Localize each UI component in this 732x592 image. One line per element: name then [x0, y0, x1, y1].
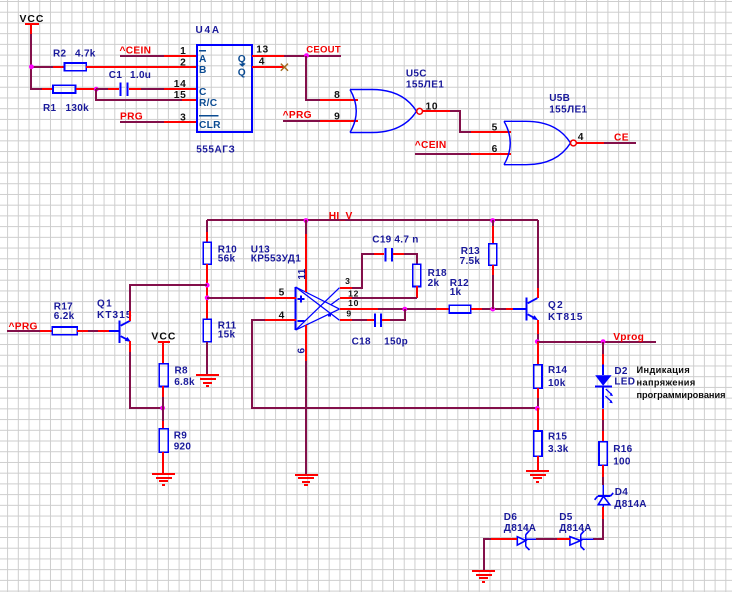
- NOR gate U5C 155ЛЕ1: [350, 90, 417, 133]
- svg-text:4.7k: 4.7k: [75, 49, 96, 60]
- svg-text:6.8k: 6.8k: [174, 377, 195, 388]
- resistor R14: [534, 342, 568, 408]
- svg-text:^CEIN: ^CEIN: [415, 140, 447, 151]
- wire pin 10 to R12: [378, 308, 436, 310]
- wire VCC vertical to junction: [31, 34, 42, 89]
- pin 8 stub: [320, 99, 358, 101]
- node junction R14/R15/feedback: [535, 406, 540, 411]
- svg-text:PRG: PRG: [120, 112, 143, 123]
- wire Q2 emitter down: [537, 320, 539, 334]
- svg-text:100: 100: [613, 457, 631, 468]
- pin 10 stub: [340, 308, 378, 310]
- node junction HI_V/pin11: [304, 218, 309, 223]
- svg-text:1: 1: [180, 46, 186, 57]
- svg-text:12: 12: [348, 288, 359, 298]
- svg-text:R1: R1: [43, 103, 57, 114]
- wire R10 junction to pin 5: [207, 297, 265, 299]
- wire pin3 up to C19: [352, 254, 374, 288]
- resistor R10: [203, 232, 237, 319]
- wire ^PRG to pin 9: [283, 120, 320, 122]
- svg-text:LED: LED: [614, 377, 635, 388]
- svg-text:Q: Q: [238, 54, 246, 65]
- svg-text:U5C: U5C: [406, 69, 427, 80]
- resistor R15: [534, 408, 569, 470]
- wire C19 to R18 top: [404, 254, 417, 264]
- resistor R9: [159, 408, 191, 474]
- svg-text:4: 4: [259, 57, 265, 68]
- zener diode D4 Д814А: [595, 477, 647, 519]
- capacitor C19: [372, 234, 418, 261]
- transistor Q2 KT815: [506, 298, 584, 324]
- wire between D5 and D6: [536, 538, 557, 540]
- svg-text:10: 10: [348, 298, 359, 308]
- capacitor C1: [108, 70, 151, 96]
- resistor R12: [436, 278, 482, 313]
- svg-text:7.5k: 7.5k: [460, 256, 481, 267]
- no-connect X on pin 4: [281, 64, 288, 71]
- pin 4 stub (U5B out): [576, 142, 604, 144]
- svg-text:HI_V: HI_V: [329, 211, 353, 222]
- svg-text:U5B: U5B: [549, 93, 570, 104]
- zener diode D5 Д814А: [557, 512, 593, 550]
- pin 5 stub: [265, 297, 296, 299]
- wire U5C out to U5B pin 5: [450, 111, 471, 132]
- svg-text:2k: 2k: [428, 278, 440, 289]
- wire ^CEIN to pin 1: [120, 55, 164, 57]
- node junction emitter/Vprog: [535, 339, 540, 344]
- output bubble U5B: [571, 140, 577, 146]
- wire ^PRG to R17: [7, 330, 40, 332]
- svg-text:Д814А: Д814А: [614, 499, 647, 510]
- svg-text:C1: C1: [109, 70, 123, 81]
- pin 11 wire from HI_V: [305, 220, 307, 234]
- svg-text:130k: 130k: [66, 103, 90, 114]
- svg-text:R14: R14: [548, 365, 567, 376]
- svg-text:Д814А: Д814А: [504, 523, 537, 534]
- ground below R15: [526, 471, 549, 482]
- output bubble U5C: [417, 108, 423, 114]
- node junction Vprog/D2: [601, 339, 606, 344]
- svg-text:3: 3: [180, 112, 186, 123]
- transistor Q1 KT315: [97, 298, 133, 343]
- svg-text:VCC: VCC: [151, 331, 176, 342]
- wire R12 to junction: [482, 308, 506, 310]
- wire Vprog: [537, 341, 656, 343]
- svg-text:A: A: [199, 54, 207, 65]
- svg-text:D6: D6: [504, 512, 518, 523]
- wire PRG to pin 3: [120, 121, 164, 123]
- svg-text:56k: 56k: [218, 253, 236, 264]
- svg-text:Q2: Q2: [548, 300, 564, 311]
- svg-text:15: 15: [174, 90, 187, 101]
- wire CEOUT down to U5C pin 8: [306, 56, 320, 100]
- ground below op-amp pin 6: [295, 475, 318, 485]
- wire junction to C1: [96, 88, 108, 90]
- svg-text:Д814А: Д814А: [559, 523, 592, 534]
- svg-text:^PRG: ^PRG: [283, 110, 312, 121]
- wire CE: [604, 142, 636, 144]
- pin 12 stub: [340, 297, 352, 299]
- LED D2: [595, 342, 635, 409]
- timer U4A 555АГЗ: [196, 25, 253, 156]
- svg-text:3: 3: [345, 276, 350, 286]
- wire HI_V down to R10: [206, 220, 208, 232]
- node junction VCC/R2: [29, 64, 34, 69]
- pin 3 stub: [340, 287, 352, 289]
- svg-text:Vprog: Vprog: [613, 332, 644, 343]
- svg-text:13: 13: [256, 45, 269, 56]
- svg-text:6.2k: 6.2k: [54, 311, 75, 322]
- svg-text:5: 5: [279, 288, 285, 299]
- resistor R16: [599, 409, 633, 477]
- op-amp U13 КР553УД1: [296, 287, 340, 330]
- svg-text:Q1: Q1: [97, 298, 113, 309]
- svg-text:программирования: программирования: [637, 390, 726, 400]
- wire junction down to pin 15: [96, 89, 182, 100]
- resistor R17: [40, 302, 88, 335]
- pin 4 stub: [252, 66, 284, 68]
- svg-text:D5: D5: [559, 512, 573, 523]
- node junction R1/C1: [94, 87, 99, 92]
- svg-text:KT815: KT815: [548, 312, 584, 323]
- svg-text:U4A: U4A: [196, 25, 221, 36]
- svg-text:R15: R15: [548, 431, 567, 442]
- pin 9 stub: [340, 319, 352, 321]
- pin 4 stub: [265, 319, 296, 321]
- pin 6 wire to ground: [305, 325, 307, 361]
- wire pin 12 to R18 bottom: [352, 297, 417, 299]
- svg-text:D2: D2: [614, 366, 628, 377]
- wire C18 up to pin10 net: [390, 309, 405, 320]
- node junction CEOUT: [304, 53, 309, 58]
- node junction R10/pin5: [205, 295, 210, 300]
- svg-text:150p: 150p: [384, 336, 408, 347]
- svg-text:^CEIN: ^CEIN: [120, 45, 152, 56]
- node junction R8/R9: [160, 406, 165, 411]
- svg-text:555АГЗ: 555АГЗ: [196, 145, 235, 156]
- node junction HI_V/R13: [490, 218, 495, 223]
- resistor R11: [203, 319, 236, 375]
- wire C1 to pin 14: [141, 88, 164, 90]
- svg-text:6: 6: [492, 144, 498, 155]
- svg-text:C: C: [199, 87, 207, 98]
- svg-text:R16: R16: [613, 444, 632, 455]
- pin 6 stub: [471, 153, 511, 155]
- svg-text:2: 2: [180, 58, 186, 69]
- wire HI_V horizontal: [207, 219, 538, 221]
- svg-text:KT315: KT315: [97, 310, 133, 321]
- svg-text:9: 9: [346, 309, 351, 319]
- svg-text:напряжения: напряжения: [637, 378, 696, 388]
- node junction collector/R10: [205, 283, 210, 288]
- svg-text:КР553УД1: КР553УД1: [251, 253, 301, 264]
- capacitor C18: [352, 313, 409, 347]
- svg-text:R2: R2: [53, 49, 67, 60]
- svg-text:R9: R9: [174, 430, 188, 441]
- svg-text:9: 9: [334, 111, 340, 122]
- pin 9 stub: [320, 120, 358, 122]
- ground below D6: [472, 571, 495, 582]
- wire R17 to Q1 base: [88, 330, 98, 332]
- ground below R9: [152, 474, 175, 485]
- node junction R13/base: [490, 307, 495, 312]
- node junction C18/pin10: [402, 307, 407, 312]
- wire junction to R2: [31, 66, 53, 68]
- svg-text:15k: 15k: [218, 330, 236, 341]
- svg-text:CLR: CLR: [199, 120, 221, 131]
- svg-text:920: 920: [174, 441, 192, 452]
- svg-text:14: 14: [174, 79, 187, 90]
- svg-text:10k: 10k: [548, 378, 566, 389]
- svg-text:D4: D4: [615, 487, 629, 498]
- svg-text:C19: C19: [372, 234, 391, 245]
- wire Q2 collector to HI_V: [537, 288, 539, 298]
- svg-text:4.7 n: 4.7 n: [394, 234, 418, 245]
- svg-text:1.0u: 1.0u: [130, 70, 151, 81]
- svg-text:R/C: R/C: [199, 98, 218, 109]
- svg-text:R8: R8: [175, 366, 189, 377]
- svg-text:C18: C18: [352, 336, 371, 347]
- power symbol VCC (at R8): [151, 331, 176, 364]
- wire ^CEIN to pin 6: [415, 153, 471, 155]
- pin 5 stub: [471, 131, 511, 133]
- svg-text:Q: Q: [238, 67, 246, 78]
- ground below R11: [196, 375, 219, 386]
- svg-text:1k: 1k: [450, 287, 462, 298]
- svg-text:CEOUT: CEOUT: [306, 45, 341, 56]
- svg-text:CE: CE: [614, 132, 629, 143]
- svg-text:5: 5: [492, 123, 498, 134]
- NOR gate U5B 155ЛЕ1: [504, 121, 571, 164]
- resistor R18: [413, 264, 447, 298]
- svg-text:4: 4: [578, 132, 584, 143]
- svg-text:Индикация: Индикация: [637, 365, 691, 375]
- pin 13 stub: [252, 55, 284, 57]
- wire pin 4 feedback loop: [252, 320, 537, 408]
- wire D6 to ground: [484, 539, 491, 570]
- wire CEOUT: [284, 55, 341, 57]
- resistor R8: [159, 364, 195, 408]
- resistor R1: [42, 85, 96, 114]
- svg-text:3.3k: 3.3k: [548, 444, 569, 455]
- wire D4 down to D5 row: [593, 519, 603, 539]
- zener diode D6 Д814А: [491, 512, 536, 550]
- wire Q1 collector up: [129, 311, 131, 321]
- power symbol VCC (top left): [20, 14, 45, 34]
- resistor R2: [53, 49, 197, 71]
- svg-text:B: B: [199, 65, 207, 76]
- resistor R13: [460, 220, 497, 309]
- svg-text:155ЛЕ1: 155ЛЕ1: [549, 104, 587, 115]
- wire pin 9 to C18: [352, 319, 367, 321]
- wire Q1 emitter down: [129, 341, 131, 352]
- svg-text:155ЛЕ1: 155ЛЕ1: [406, 79, 444, 90]
- svg-text:8: 8: [334, 90, 340, 101]
- pin 10 stub: [422, 110, 450, 112]
